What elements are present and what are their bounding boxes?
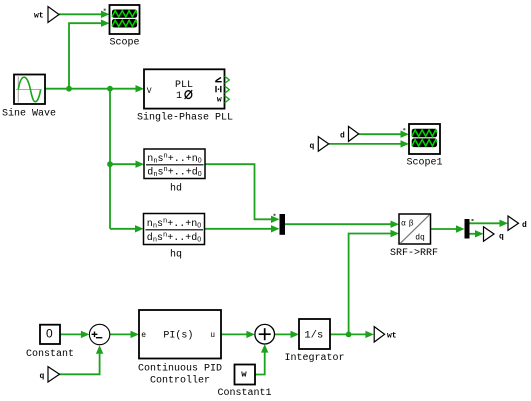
PLL unconnected port 3 bbox=[225, 96, 230, 103]
wire integrator junction to SRF in2 bbox=[349, 234, 392, 335]
wire SRF to Demux bbox=[431, 228, 458, 230]
junction at sine branch 1 bbox=[66, 86, 72, 92]
svg-text:Single-Phase PLL: Single-Phase PLL bbox=[137, 112, 233, 124]
from tag q mid bbox=[310, 137, 329, 152]
sum Sum1 bbox=[89, 324, 109, 344]
block hq bbox=[144, 214, 205, 261]
svg-text:q: q bbox=[499, 233, 504, 242]
block hd bbox=[144, 149, 205, 195]
svg-text:SRF->RRF: SRF->RRF bbox=[390, 248, 438, 259]
svg-text:w: w bbox=[241, 369, 247, 379]
wire Sum2 to Integrator bbox=[275, 333, 293, 335]
wire branch to Scope in2 bbox=[69, 23, 103, 89]
PLL unconnected port 2 bbox=[225, 86, 230, 93]
wire PID to Sum2 bbox=[221, 333, 248, 335]
svg-text:α: α bbox=[401, 220, 406, 229]
svg-text:Continuous PID: Continuous PID bbox=[138, 363, 222, 375]
svg-text:q: q bbox=[40, 372, 45, 381]
wire trunk to hq bbox=[110, 228, 137, 230]
svg-text:Scope: Scope bbox=[109, 38, 139, 49]
block Sine Wave bbox=[2, 75, 56, 120]
block Scope1 bbox=[403, 124, 442, 169]
block Constant bbox=[26, 325, 74, 360]
svg-text:u: u bbox=[210, 331, 215, 340]
svg-text:V: V bbox=[147, 87, 152, 96]
svg-text:Controller: Controller bbox=[150, 375, 210, 387]
svg-text:Constant1: Constant1 bbox=[217, 388, 271, 399]
wire wt-from to Scope in1 bbox=[59, 13, 103, 15]
svg-text:e: e bbox=[141, 331, 146, 340]
svg-text:wt: wt bbox=[387, 332, 397, 341]
svg-text:q: q bbox=[310, 142, 315, 151]
wire Sum1 to PID bbox=[110, 333, 132, 335]
svg-text:hd: hd bbox=[170, 183, 182, 195]
svg-text:Sine Wave: Sine Wave bbox=[2, 108, 56, 120]
junction at integrator output bbox=[346, 332, 352, 338]
block SRF->RRF bbox=[390, 214, 438, 259]
svg-text:0: 0 bbox=[46, 326, 53, 340]
from tag q bottom bbox=[40, 367, 60, 382]
svg-text:β: β bbox=[409, 220, 414, 229]
wire d-from to Scope1 in1 bbox=[359, 133, 402, 135]
wire q-from to Scope1 in2 bbox=[329, 143, 402, 145]
block Single-Phase PLL bbox=[137, 69, 233, 123]
junction at sine branch 2 bbox=[107, 86, 113, 92]
wire vertical trunk bbox=[109, 89, 111, 229]
wire Sine Wave to PLL bbox=[45, 88, 138, 90]
wire hq to Mux in2 bbox=[205, 228, 273, 230]
svg-text:d: d bbox=[522, 221, 527, 230]
wire Demux out1 to d goto bbox=[470, 222, 502, 224]
wire Demux out2 to q goto bbox=[470, 233, 477, 235]
block Constant1 bbox=[217, 365, 271, 400]
svg-text:dq: dq bbox=[415, 234, 425, 243]
junction at hd branch bbox=[107, 161, 113, 167]
from tag d mid bbox=[340, 126, 359, 141]
wire q-from to Sum1 bottom bbox=[60, 353, 100, 375]
svg-text:w: w bbox=[217, 95, 222, 104]
svg-text:hq: hq bbox=[170, 249, 182, 261]
wire Mux to SRF in1 bbox=[285, 223, 392, 225]
goto tag q right bbox=[484, 227, 505, 242]
svg-text:PI(s): PI(s) bbox=[163, 330, 193, 342]
svg-text:d: d bbox=[340, 132, 345, 141]
block Scope bbox=[104, 5, 140, 49]
wire trunk to hd bbox=[110, 163, 137, 165]
svg-text:1/s: 1/s bbox=[304, 330, 323, 342]
svg-text:wt: wt bbox=[34, 12, 44, 21]
Demux bbox=[465, 219, 474, 239]
svg-text:PLL: PLL bbox=[175, 80, 193, 91]
block PID Controller bbox=[138, 310, 222, 387]
block Integrator bbox=[284, 319, 344, 364]
sum Sum2 bbox=[255, 324, 275, 344]
wire Constant to Sum1 bbox=[60, 333, 83, 335]
wire hd to Mux in1 bbox=[205, 164, 273, 219]
svg-text:Constant: Constant bbox=[26, 349, 74, 360]
svg-text:Integrator: Integrator bbox=[284, 353, 344, 364]
goto tag d right bbox=[508, 216, 527, 230]
svg-text:Scope1: Scope1 bbox=[406, 158, 442, 169]
from tag wt top bbox=[34, 7, 59, 23]
wire Constant1 to Sum2 bottom bbox=[255, 352, 265, 375]
svg-text:1: 1 bbox=[176, 91, 182, 102]
goto tag wt right bbox=[374, 327, 397, 342]
Mux bbox=[274, 214, 286, 235]
wire Integrator to wt goto bbox=[330, 333, 367, 335]
PLL unconnected port 1 bbox=[225, 76, 230, 83]
